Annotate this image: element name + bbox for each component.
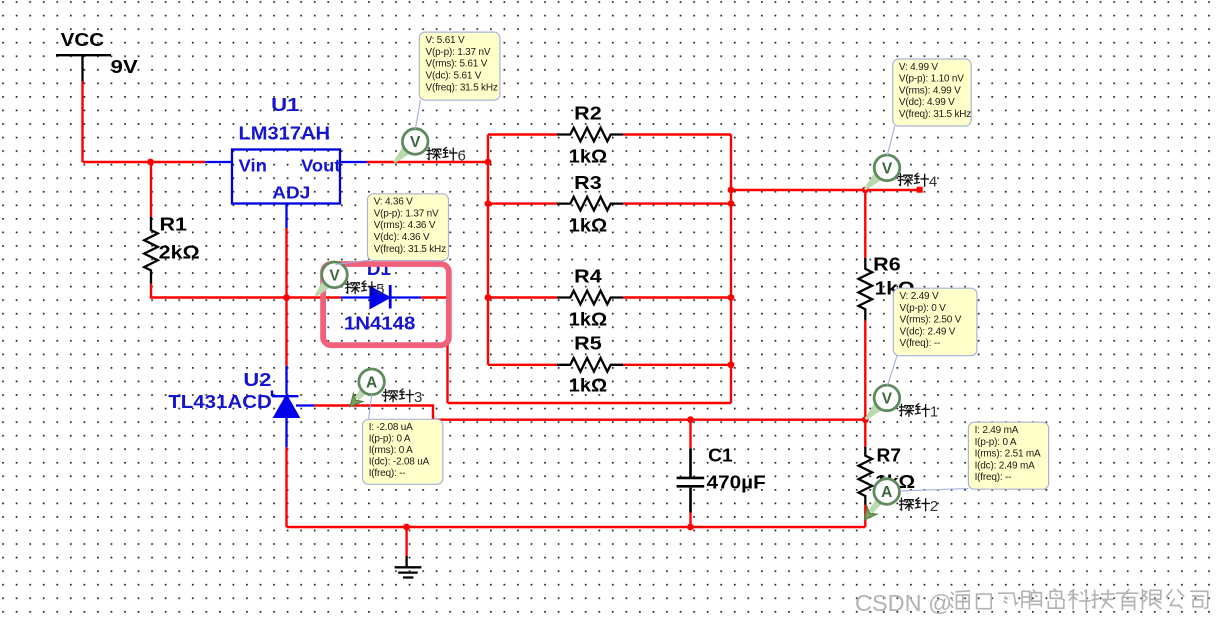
measurement box probe3 bbox=[363, 419, 443, 484]
svg-text:1: 1 bbox=[930, 404, 938, 421]
svg-text:CSDN @: CSDN @ bbox=[855, 590, 952, 616]
wire R6 bottom lead bbox=[864, 320, 866, 419]
svg-text:V(freq): 31.5 kHz: V(freq): 31.5 kHz bbox=[426, 83, 498, 94]
svg-text:V(p-p): 0 V: V(p-p): 0 V bbox=[900, 303, 947, 314]
svg-text:R7: R7 bbox=[877, 444, 902, 465]
measurement box probe6 bbox=[419, 32, 500, 100]
wire probe4 row bbox=[731, 189, 920, 191]
svg-text:4: 4 bbox=[929, 173, 937, 190]
wire TL431 ref to probe1 junction bbox=[314, 406, 865, 420]
svg-text:I(p-p): 0 A: I(p-p): 0 A bbox=[975, 437, 1017, 448]
svg-text:V: V bbox=[882, 160, 893, 177]
svg-text:I(rms): 2.51 mA: I(rms): 2.51 mA bbox=[975, 449, 1041, 460]
svg-text:Vin: Vin bbox=[239, 155, 268, 175]
svg-text:I(rms): 0 A: I(rms): 0 A bbox=[369, 445, 413, 456]
node R5 right bbox=[728, 361, 735, 368]
wire U1 ADJ stub bbox=[285, 204, 287, 229]
svg-text:ADJ: ADJ bbox=[272, 183, 310, 203]
wire C1 top lead bbox=[689, 420, 691, 449]
probe2 arrow bbox=[865, 499, 883, 520]
wire D1 cathode lead bbox=[390, 296, 421, 298]
black component symbols bbox=[56, 55, 872, 577]
probe5 circle V bbox=[322, 262, 348, 288]
svg-text:I(p-p): 0 A: I(p-p): 0 A bbox=[369, 434, 411, 445]
TL431 U2 symbol bbox=[272, 391, 300, 418]
label probe2 (tanzhen2) bbox=[899, 498, 929, 511]
svg-text:6: 6 bbox=[458, 147, 466, 164]
probe2 circle A bbox=[874, 479, 900, 505]
svg-text:V(dc): 4.99 V: V(dc): 4.99 V bbox=[899, 97, 955, 108]
connector probe4 box bbox=[887, 126, 894, 156]
wire bank right vertical bbox=[730, 135, 732, 404]
probe3 arrow bbox=[350, 389, 366, 407]
svg-text:I(freq): --: I(freq): -- bbox=[975, 472, 1012, 483]
svg-text:V(dc): 4.36 V: V(dc): 4.36 V bbox=[374, 232, 430, 243]
svg-text:R3: R3 bbox=[574, 172, 602, 193]
wire R6 top lead bbox=[864, 190, 866, 258]
wire bank bottom rail bbox=[448, 402, 732, 404]
svg-text:V(rms): 4.36 V: V(rms): 4.36 V bbox=[374, 220, 436, 231]
wire R1 top lead bbox=[150, 162, 152, 217]
svg-text:C1: C1 bbox=[708, 444, 733, 465]
svg-text:V(dc): 2.49 V: V(dc): 2.49 V bbox=[900, 326, 956, 337]
node R4 right bbox=[728, 294, 735, 301]
probe6 circle V bbox=[402, 129, 428, 155]
measurement box probe2 bbox=[968, 422, 1048, 489]
measurement box probe4 bbox=[893, 59, 972, 126]
wire ADJ vertical bbox=[285, 228, 287, 366]
ground bbox=[395, 556, 422, 578]
wire D1 anode lead bbox=[341, 296, 370, 298]
wire bank left vertical bbox=[487, 135, 489, 365]
label probe6 (tanzhen6) bbox=[427, 147, 457, 160]
blue pin stubs bbox=[205, 162, 421, 447]
svg-text:Vout: Vout bbox=[301, 155, 341, 175]
svg-text:V(rms): 4.99 V: V(rms): 4.99 V bbox=[899, 85, 961, 96]
node probe4 wire end marker bbox=[917, 187, 923, 193]
node probe1/R7 bbox=[862, 416, 869, 423]
svg-text:A: A bbox=[881, 484, 892, 501]
wire U1 Vin stub bbox=[205, 161, 232, 163]
svg-text:470µF: 470µF bbox=[707, 472, 766, 493]
wire R2 row bbox=[488, 133, 731, 135]
wire TL431 anode down bbox=[285, 447, 287, 527]
node main to bank left bbox=[485, 159, 492, 166]
svg-text:R5: R5 bbox=[574, 333, 602, 354]
capacitor C1 bbox=[677, 448, 705, 512]
connector probe6 box bbox=[415, 100, 420, 129]
wire VCC to U1 Vin bbox=[83, 161, 206, 163]
wire R4 row bbox=[488, 296, 731, 298]
svg-text:V: V bbox=[329, 267, 340, 284]
probe4 circle V bbox=[874, 155, 900, 181]
node R3 right bbox=[728, 200, 735, 207]
svg-text:TL431ACD: TL431ACD bbox=[168, 391, 271, 412]
svg-text:V: 4.99 V: V: 4.99 V bbox=[899, 62, 938, 73]
power VCC symbol bbox=[56, 55, 111, 81]
connector probe3 box bbox=[369, 394, 372, 419]
svg-text:U1: U1 bbox=[271, 94, 299, 115]
resistor R1 bbox=[144, 217, 158, 284]
svg-text:V: 5.61 V: V: 5.61 V bbox=[426, 35, 465, 46]
resistor R2 bbox=[557, 128, 623, 142]
svg-text:1kΩ: 1kΩ bbox=[569, 215, 608, 236]
resistor R7 bbox=[859, 447, 873, 505]
resistor R3 bbox=[557, 197, 623, 211]
svg-text:R6: R6 bbox=[873, 254, 901, 275]
wire TL431 cathode lead bbox=[285, 366, 287, 395]
node ADJ/R1/diode bbox=[283, 294, 290, 301]
svg-text:V(p-p): 1.10 nV: V(p-p): 1.10 nV bbox=[899, 74, 964, 85]
svg-text:I(dc): 2.49 mA: I(dc): 2.49 mA bbox=[975, 460, 1036, 471]
probe3 circle A bbox=[359, 369, 385, 395]
svg-text:V(rms): 5.61 V: V(rms): 5.61 V bbox=[426, 59, 488, 70]
svg-text:5: 5 bbox=[376, 281, 384, 298]
svg-text:1kΩ: 1kΩ bbox=[569, 375, 608, 396]
node C1 bottom bbox=[687, 524, 694, 531]
wire TL431 ref stub bbox=[296, 404, 314, 406]
connector lines for measurement boxes bbox=[336, 100, 969, 491]
node VCC/R1 branch bbox=[147, 159, 154, 166]
resistor R4 bbox=[557, 291, 623, 305]
svg-text:V: 2.49 V: V: 2.49 V bbox=[900, 291, 939, 302]
svg-text:V(dc): 5.61 V: V(dc): 5.61 V bbox=[426, 71, 482, 82]
text labels black bbox=[61, 29, 916, 493]
wire bottom rail bbox=[287, 526, 866, 528]
wire R7 bottom lead bbox=[864, 505, 866, 527]
wire VCC vertical bbox=[81, 81, 83, 163]
label probe5 (tanzhen5) bbox=[346, 281, 376, 294]
wire R3 row bbox=[488, 202, 731, 204]
svg-text:R2: R2 bbox=[574, 103, 602, 124]
label probe4 (tanzhen4) bbox=[898, 173, 928, 186]
resistor R6 bbox=[859, 258, 873, 321]
wires layer bbox=[83, 81, 920, 557]
svg-text:R1: R1 bbox=[160, 214, 188, 235]
measurement box probe5 bbox=[368, 194, 449, 261]
svg-text:VCC: VCC bbox=[61, 29, 104, 50]
wire diode cathode to drop bbox=[421, 298, 447, 404]
svg-text:I: 2.49 mA: I: 2.49 mA bbox=[975, 425, 1019, 436]
wire R5 row bbox=[488, 364, 731, 366]
svg-text:V(p-p): 1.37 nV: V(p-p): 1.37 nV bbox=[374, 208, 439, 219]
probe1 circle V bbox=[874, 385, 900, 411]
svg-text:V(freq): --: V(freq): -- bbox=[900, 338, 941, 349]
svg-text:V(rms): 2.50 V: V(rms): 2.50 V bbox=[900, 315, 962, 326]
svg-text:2: 2 bbox=[930, 498, 938, 515]
svg-text:I(freq): --: I(freq): -- bbox=[369, 468, 406, 479]
probe6 wedge bbox=[394, 147, 410, 163]
probe4 wedge bbox=[864, 173, 882, 190]
svg-text:V: 4.36 V: V: 4.36 V bbox=[374, 197, 413, 208]
diode D1 symbol bbox=[370, 285, 390, 309]
svg-text:R4: R4 bbox=[574, 266, 602, 287]
svg-text:LM317AH: LM317AH bbox=[239, 124, 331, 144]
connector probe2 box bbox=[900, 489, 969, 491]
wire U1 Vout to bank bbox=[367, 161, 488, 163]
svg-text:2kΩ: 2kΩ bbox=[159, 242, 200, 263]
probe1 wedge bbox=[865, 403, 882, 420]
svg-text:1kΩ: 1kΩ bbox=[569, 145, 608, 166]
wire C1 bottom lead bbox=[689, 513, 691, 527]
svg-text:V(freq): 31.5 kHz: V(freq): 31.5 kHz bbox=[899, 109, 971, 120]
svg-text:1kΩ: 1kΩ bbox=[569, 308, 608, 329]
svg-text:I: -2.08 uA: I: -2.08 uA bbox=[369, 422, 413, 433]
watermark CSDN bbox=[855, 589, 1208, 616]
svg-text:V: V bbox=[410, 134, 421, 151]
svg-text:A: A bbox=[366, 374, 377, 391]
connector probe5 box bbox=[336, 260, 370, 264]
label probe1 (tanzhen1) bbox=[899, 404, 929, 417]
svg-text:U2: U2 bbox=[243, 369, 271, 390]
probe5 wedge bbox=[315, 281, 330, 297]
wire R7 top lead bbox=[864, 420, 866, 447]
wire TL431 anode lead bbox=[285, 418, 287, 448]
svg-text:9V: 9V bbox=[111, 56, 139, 77]
node R4 left bbox=[485, 294, 492, 301]
U1 LM317AH body bbox=[232, 150, 340, 204]
wire ground stub bbox=[405, 527, 407, 556]
node C1 top bbox=[687, 416, 694, 423]
svg-text:V(freq): 31.5 kHz: V(freq): 31.5 kHz bbox=[374, 244, 446, 255]
svg-text:V(p-p): 1.37 nV: V(p-p): 1.37 nV bbox=[426, 47, 491, 58]
svg-text:1N4148: 1N4148 bbox=[344, 313, 416, 334]
wire R1 bottom to diode row bbox=[151, 284, 341, 298]
measurement box probe1 bbox=[893, 288, 977, 356]
label probe3 (tanzhen3) bbox=[383, 389, 413, 402]
svg-text:3: 3 bbox=[414, 389, 422, 406]
resistor R5 bbox=[557, 358, 623, 372]
wire U1 Vout stub bbox=[340, 161, 367, 163]
svg-text:V: V bbox=[882, 390, 893, 407]
node probe4 branch bbox=[728, 187, 735, 194]
node probe4/R6 bbox=[862, 187, 869, 194]
connector probe1 box bbox=[888, 356, 898, 386]
node ground bbox=[403, 524, 410, 531]
D1 selection highlight box bbox=[323, 264, 449, 345]
svg-text:I(dc): -2.08 uA: I(dc): -2.08 uA bbox=[369, 457, 430, 468]
node R3 left bbox=[485, 200, 492, 207]
text labels blue bbox=[168, 94, 415, 412]
